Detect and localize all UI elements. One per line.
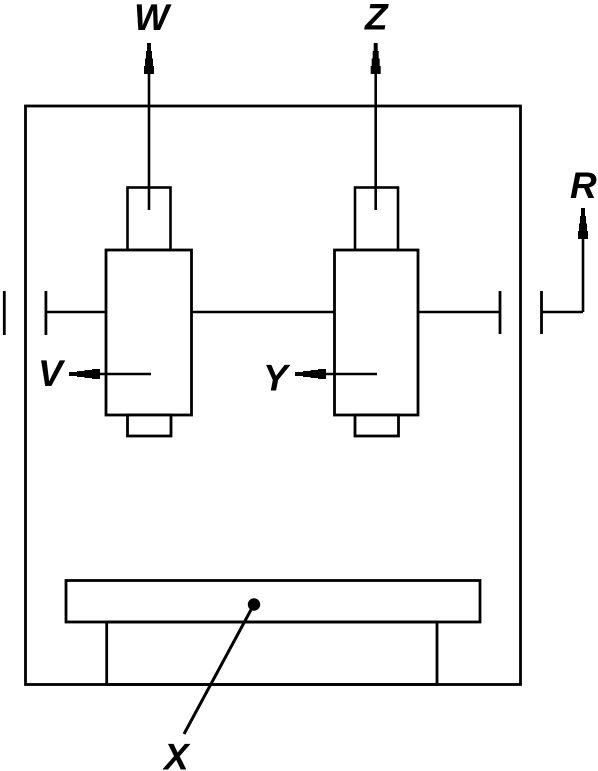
arrow V (head) [69, 369, 100, 379]
svg-text:R: R [570, 165, 597, 206]
right valve neck [355, 188, 398, 251]
pedestal base [107, 622, 437, 685]
arrow Y (head) [295, 369, 326, 379]
svg-text:Z: Z [364, 0, 389, 38]
outer housing rectangle [26, 106, 521, 685]
arrow Z (head) [371, 43, 381, 74]
arrow Y (line) [321, 373, 377, 376]
shaft coupling tick (inside right) [499, 291, 502, 334]
svg-text:V: V [38, 353, 66, 394]
shaft segment middle [192, 311, 335, 314]
right valve foot [355, 415, 399, 436]
leader line to X [184, 607, 253, 734]
shaft coupling tick (outside right) [540, 291, 543, 334]
svg-text:W: W [134, 0, 172, 38]
left valve body [106, 250, 192, 415]
left valve foot [128, 415, 172, 436]
arrow W (head) [144, 43, 154, 74]
shaft coupling tick (inside left) [45, 291, 48, 335]
arrow W (line) [148, 68, 151, 210]
arrow R (head) [578, 208, 588, 239]
shaft segment right [418, 311, 500, 314]
arrow R (horizontal line) [542, 311, 584, 314]
left valve neck [128, 188, 171, 251]
shaft coupling tick (far left, outside housing) [3, 291, 6, 335]
arrow Z (line) [374, 68, 377, 210]
arrow V (line) [95, 373, 151, 376]
svg-text:X: X [162, 737, 191, 771]
svg-text:Y: Y [263, 358, 291, 399]
right valve body [335, 250, 419, 415]
node dot on platform [248, 598, 260, 610]
arrow R (vertical line) [582, 234, 585, 312]
platform (table) rectangle [66, 581, 480, 623]
shaft segment left [46, 311, 106, 314]
